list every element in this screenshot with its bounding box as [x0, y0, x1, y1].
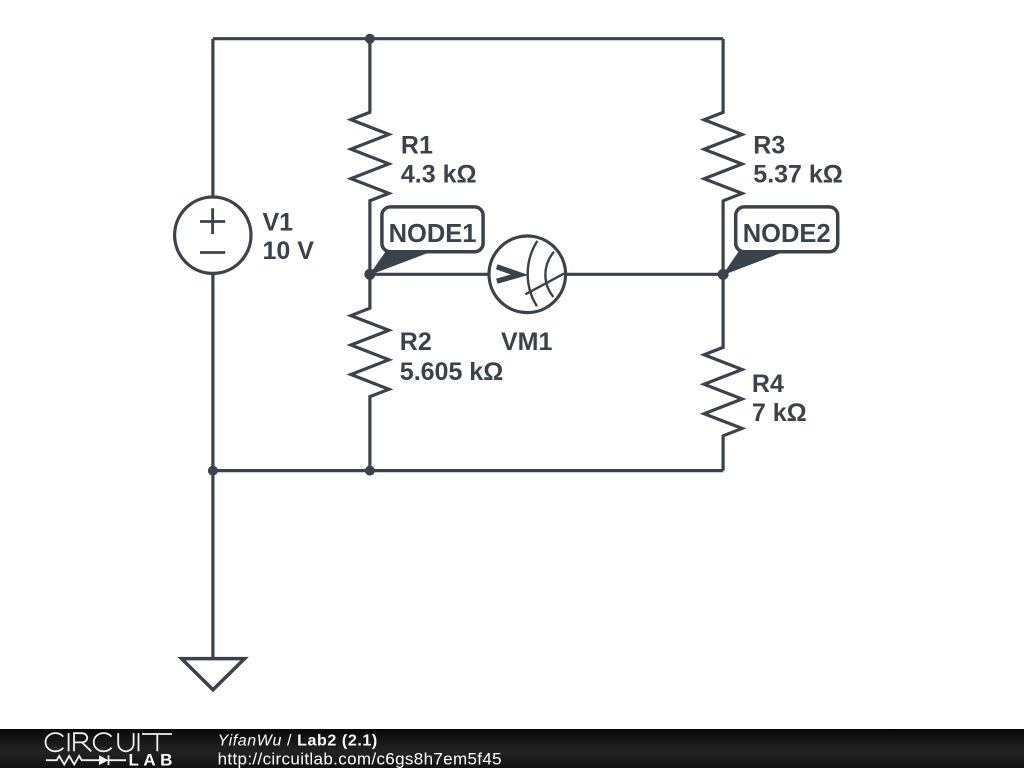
- wire VM1 left: [370, 273, 489, 276]
- node NODE2 dot: [718, 269, 729, 280]
- svg-text:http://circuitlab.com/c6gs8h7e: http://circuitlab.com/c6gs8h7em5f45: [218, 749, 502, 768]
- wire left upper (to V1): [211, 39, 214, 197]
- junction dot bottom left: [208, 466, 218, 476]
- node NODE1 dot: [364, 269, 375, 280]
- junction dot top rail: [365, 34, 375, 44]
- svg-text:LAB: LAB: [129, 751, 177, 768]
- wire left lower (V1 to bottom rail): [211, 273, 214, 470]
- svg-text:YifanWu / Lab2 (2.1): YifanWu / Lab2 (2.1): [218, 733, 378, 750]
- resistor R4: [704, 274, 742, 470]
- logo CIRCUIT letters: [46, 733, 172, 751]
- node NODE2 callout box: [736, 207, 838, 252]
- voltage source V1: [175, 197, 251, 273]
- wire top rail: [213, 37, 723, 40]
- resistor R1: [351, 39, 389, 275]
- footer bar: [0, 729, 1024, 768]
- logo resistor-diode line: [46, 755, 126, 765]
- wire bottom rail: [213, 469, 723, 472]
- junction dot bottom mid: [365, 466, 375, 476]
- node NODE1 callout tail: [370, 252, 427, 274]
- ground: [182, 659, 245, 690]
- logo diode triangle: [99, 755, 109, 765]
- voltmeter VM1: [489, 236, 566, 313]
- wire VM1 right: [566, 273, 724, 276]
- resistor R2: [351, 274, 389, 470]
- resistor R3: [704, 39, 742, 275]
- node NODE2 callout tail: [724, 252, 779, 274]
- wire ground stem: [211, 471, 214, 659]
- node NODE1 callout box: [382, 207, 483, 252]
